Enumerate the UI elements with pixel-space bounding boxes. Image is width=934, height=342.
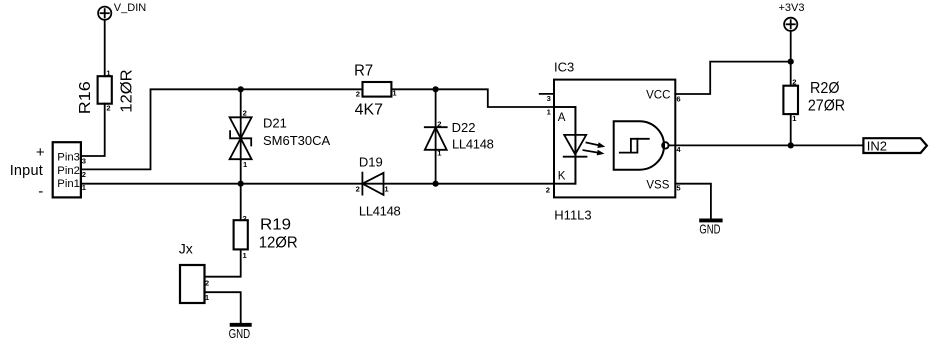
resistor R20 body	[783, 86, 798, 114]
svg-text:D21: D21	[263, 116, 287, 131]
junction D22 bottom	[433, 181, 439, 187]
ground symbol GND (below Jx)	[230, 323, 252, 327]
wire junction to R20 pin 2	[790, 62, 792, 86]
resistor R7 body	[363, 82, 392, 97]
output bubble	[662, 142, 668, 148]
wire connector Pin2 to R7 pin 2 (top net)	[81, 89, 363, 169]
transil diode D21 SM6T30CA	[230, 89, 252, 183]
resistor R19 body	[234, 220, 248, 249]
svg-text:VCC: VCC	[646, 89, 670, 101]
svg-text:LL4148: LL4148	[359, 203, 401, 218]
svg-text:2: 2	[205, 279, 209, 288]
svg-text:D22: D22	[452, 120, 476, 135]
wire IC3 VSS pin 5 to ground	[675, 184, 711, 219]
svg-text:27ØR: 27ØR	[808, 98, 845, 115]
junction D22 top	[433, 86, 439, 92]
svg-text:LL4148: LL4148	[452, 137, 494, 152]
svg-text:2: 2	[82, 170, 86, 179]
svg-text:3: 3	[547, 94, 551, 103]
svg-text:H11L3: H11L3	[554, 207, 591, 222]
svg-text:R19: R19	[260, 217, 291, 234]
light arrow 1	[586, 140, 606, 150]
svg-text:2: 2	[106, 103, 110, 112]
svg-text:2: 2	[243, 214, 247, 223]
svg-text:-: -	[38, 183, 43, 200]
wire R7 pin 1 to IC3 pin 1	[391, 89, 554, 107]
svg-text:IC3: IC3	[554, 60, 574, 75]
svg-text:Pin3: Pin3	[57, 152, 80, 164]
svg-text:12ØR: 12ØR	[259, 234, 298, 251]
svg-text:VSS: VSS	[646, 180, 669, 192]
svg-text:GND: GND	[699, 222, 720, 236]
svg-text:R16: R16	[77, 81, 94, 114]
junction +3V3 / R20	[788, 59, 794, 65]
light arrow 2	[583, 147, 605, 156]
svg-text:2: 2	[356, 89, 360, 98]
resistor R16 body	[98, 76, 112, 104]
svg-text:D19: D19	[359, 154, 383, 169]
wire V_DIN to R16 pin 1	[104, 20, 106, 76]
svg-text:Pin2: Pin2	[57, 165, 80, 177]
svg-text:2: 2	[437, 119, 441, 128]
ground symbol GND (below IC3)	[699, 218, 722, 222]
svg-text:K: K	[558, 170, 566, 182]
svg-text:+3V3: +3V3	[779, 2, 805, 14]
junction R20 bottom	[788, 142, 794, 148]
svg-text:6: 6	[676, 94, 680, 103]
svg-text:2: 2	[356, 185, 360, 194]
wire D21 bottom to R19 pin 2	[240, 184, 242, 221]
svg-text:2: 2	[546, 186, 550, 195]
diode D22 LL4148	[425, 89, 447, 183]
wire Jx pin 1 to ground	[205, 292, 241, 323]
LED of IC3	[564, 107, 587, 184]
diode D19 LL4148	[362, 173, 383, 195]
svg-text:IN2: IN2	[867, 139, 887, 154]
svg-text:A: A	[558, 112, 566, 124]
svg-text:V_DIN: V_DIN	[114, 2, 146, 14]
svg-text:12ØR: 12ØR	[119, 69, 136, 113]
svg-text:4K7: 4K7	[355, 101, 383, 118]
connector Jx body	[180, 265, 205, 303]
wire +3V3 to junction	[790, 31, 792, 62]
svg-text:2: 2	[243, 108, 247, 117]
power symbol V_DIN	[98, 7, 111, 20]
svg-text:Jx: Jx	[179, 240, 193, 256]
wire R19 pin 1 to Jx pin 2	[205, 249, 241, 276]
svg-text:Input: Input	[10, 163, 43, 179]
wire bottom net (connector Pin1 to IC3 pin 2)	[81, 183, 554, 185]
wire R20 pin 1 to output net	[790, 114, 792, 145]
svg-text:GND: GND	[229, 327, 251, 341]
svg-text:R2Ø: R2Ø	[810, 80, 840, 97]
svg-text:Pin1: Pin1	[57, 178, 80, 190]
connector body (input header)	[53, 142, 81, 197]
junction D21 top	[238, 86, 244, 92]
pin 3 stub of IC3 (n.c.)	[540, 93, 554, 95]
power symbol +3V3	[784, 18, 797, 31]
svg-text:SM6T30CA: SM6T30CA	[263, 133, 331, 148]
optocoupler IC3 body	[554, 80, 675, 198]
svg-text:R7: R7	[354, 63, 373, 80]
wire IC3 VCC pin 6 to +3V3 node	[675, 62, 790, 94]
schmitt trigger gate of IC3	[614, 121, 664, 170]
hysteresis symbol	[620, 139, 649, 153]
LED box inside IC3	[554, 107, 575, 184]
junction D21 bottom	[238, 181, 244, 187]
wire R16 pin 2 to connector Pin3	[81, 104, 105, 156]
svg-text:3: 3	[82, 156, 86, 165]
wire IC3 pin 4 output to IN2 flag	[669, 144, 864, 146]
net flag IN2	[863, 138, 927, 153]
svg-text:+: +	[36, 144, 45, 161]
